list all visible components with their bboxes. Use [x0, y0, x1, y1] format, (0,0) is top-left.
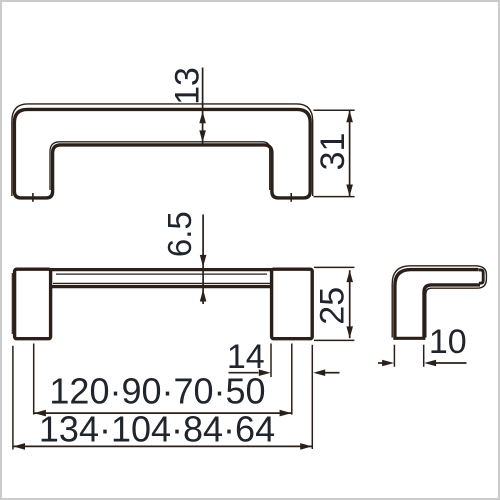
- svg-text:10: 10: [429, 323, 467, 361]
- front view bar bottom thick line: [51, 285, 273, 288]
- dim 10: right-pointing arrowhead: [382, 360, 394, 367]
- dim 25: bottom arrowhead: [346, 326, 353, 338]
- dim 31: top extension line: [314, 109, 355, 111]
- top view left foot center tick: [32, 193, 34, 202]
- front view right foot center extension: [291, 344, 293, 415]
- handle top view: inner thin contour: [50, 142, 270, 190]
- handle top view: outer thick outline with feet and inner opening: [14, 109, 310, 197]
- dim 120: right arrowhead: [280, 410, 292, 417]
- front view left outer extension: [12, 346, 14, 450]
- dim 6.5: dimension line: [202, 215, 204, 305]
- dim 120 pitch: dimension line: [34, 412, 292, 414]
- front view bar top thick line: [51, 268, 273, 271]
- dim 10: left-pointing arrowhead: [424, 360, 436, 367]
- dim 134 overall: dimension line: [13, 445, 312, 447]
- svg-text:31: 31: [314, 133, 352, 171]
- front view left foot: [15, 269, 51, 339]
- front view left foot edge accent: [11, 273, 13, 334]
- dim 25: dimension line: [349, 270, 351, 338]
- top view right foot center tick: [290, 193, 292, 202]
- side view: bottom edge: [393, 337, 425, 340]
- dim 10: right dimension line: [436, 362, 467, 364]
- svg-text:13: 13: [168, 67, 206, 105]
- dim 13: extension/dimension line: [202, 68, 204, 145]
- side view: thick outline: [395, 270, 479, 337]
- dim 31: bottom arrowhead: [346, 185, 353, 197]
- front view right foot: [272, 269, 313, 339]
- dim 134: left arrowhead: [13, 443, 25, 450]
- dim 14: left dimension line: [229, 372, 259, 374]
- dim 14: right dimension line: [325, 372, 340, 374]
- front view left foot center extension: [33, 344, 35, 415]
- front view right outer extension: [311, 345, 313, 449]
- dim 6.5: down arrowhead: [200, 255, 207, 267]
- dim 6.5: up arrowhead: [200, 290, 207, 302]
- dim 25: top arrowhead: [346, 270, 353, 282]
- dim 120: left arrowhead: [34, 410, 46, 417]
- side view: end cap: [479, 270, 483, 283]
- dim 10: right extension line: [423, 345, 425, 367]
- front view bar lower thin line: [53, 282, 270, 284]
- dim 14: extension line at right foot left edge: [270, 344, 272, 378]
- svg-text:25: 25: [314, 287, 352, 325]
- dim 10: left extension line: [393, 345, 395, 367]
- dim 134: right arrowhead: [300, 443, 312, 450]
- dim 14: right-pointing arrowhead: [259, 369, 271, 376]
- svg-text:120·90·70·50: 120·90·70·50: [49, 371, 265, 412]
- side view: arm bottom and leg right edge: [424, 285, 480, 337]
- front view bar upper thin line: [56, 273, 267, 275]
- dim 13: upper arrowhead: [199, 111, 206, 123]
- dim 14: left-pointing arrowhead: [313, 369, 325, 376]
- dim 10: left dimension line: [378, 362, 383, 364]
- side view: outer thin contour: [392, 266, 486, 338]
- dim 31: dimension line: [349, 110, 351, 196]
- dim 31: top arrowhead: [346, 110, 353, 122]
- dim 25: bottom extension line: [314, 339, 354, 341]
- dim 31: bottom extension line: [314, 196, 355, 198]
- dim 25: top extension line: [314, 266, 354, 268]
- dim 13: lower arrowhead: [199, 130, 206, 142]
- handle top view: outer thin contour: [12, 104, 313, 196]
- svg-text:134·104·84·64: 134·104·84·64: [39, 409, 275, 450]
- svg-text:6.5: 6.5: [161, 211, 198, 257]
